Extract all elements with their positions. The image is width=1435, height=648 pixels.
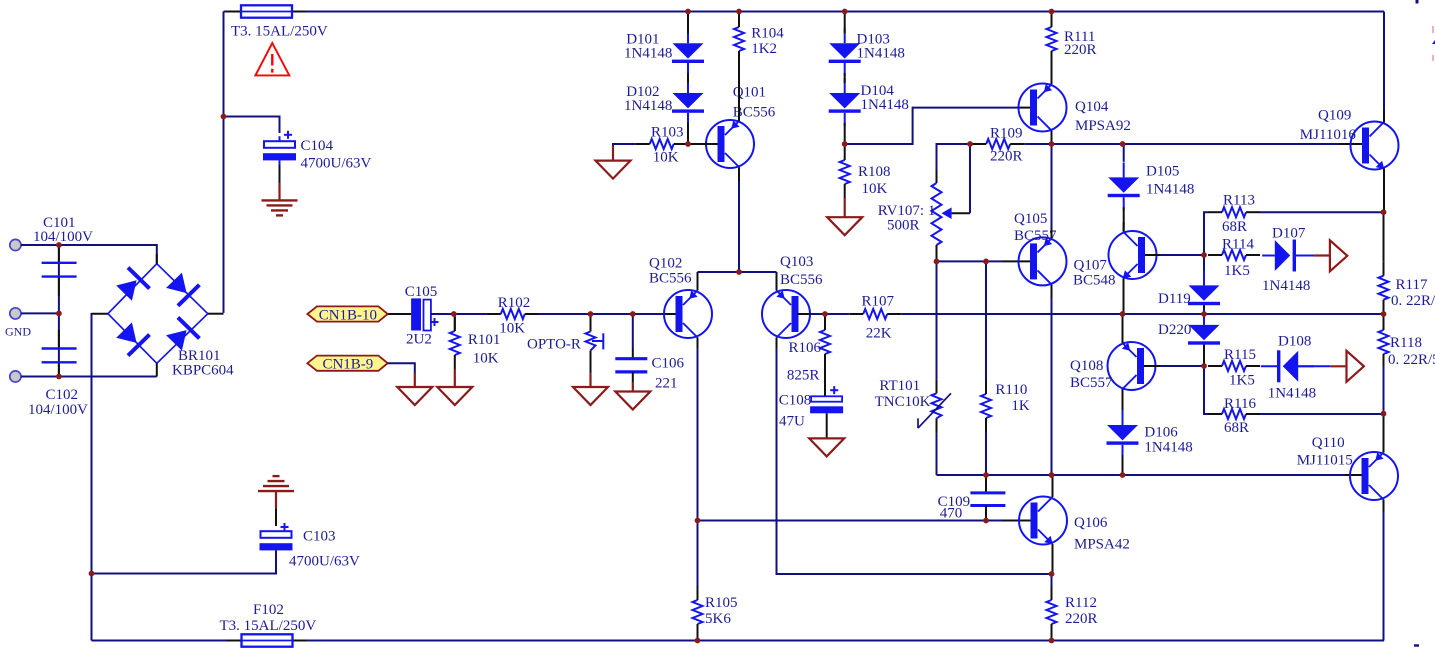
svg-text:1K2: 1K2: [751, 41, 777, 57]
svg-text:10K: 10K: [499, 321, 525, 337]
junction Q106 collector: [1049, 472, 1055, 478]
wire diff pair emitters: [698, 271, 777, 273]
junction R109 left: [967, 141, 973, 147]
terminal AC2: [10, 371, 21, 382]
junction C109/R110: [983, 472, 989, 478]
pin RV107 bottom pin: [936, 245, 938, 261]
svg-text:220R: 220R: [1064, 42, 1097, 58]
pin D106 bottom pin: [1122, 455, 1124, 475]
svg-text:OPTO-R: OPTO-R: [527, 337, 581, 353]
wire D105 top pin: [1123, 144, 1125, 162]
pin Q107 collector pin: [1123, 222, 1125, 232]
transistor Q104: [1019, 84, 1131, 135]
svg-text:C106: C106: [652, 356, 685, 372]
resistor R114: [1208, 236, 1260, 279]
junction C105/R101: [451, 311, 457, 317]
svg-text:R117: R117: [1396, 277, 1428, 293]
wire OPTO-R bottom pin: [590, 351, 592, 374]
diode D102: [624, 78, 704, 126]
resistor R107: [849, 294, 901, 342]
diode D108: [1261, 334, 1316, 402]
svg-text:R115: R115: [1224, 347, 1256, 363]
wire R103 to ground: [613, 144, 636, 146]
wire R101 node to R102: [454, 313, 487, 315]
pin D220 bottom pin: [1203, 345, 1205, 366]
svg-text:BC556: BC556: [780, 272, 823, 288]
svg-text:104/100V: 104/100V: [33, 229, 93, 245]
svg-text:5K6: 5K6: [705, 611, 731, 627]
wire D108 blue lead: [1298, 365, 1330, 367]
ground C106: [615, 392, 650, 410]
resistor R108: [840, 146, 891, 198]
svg-text:CN1B-9: CN1B-9: [322, 357, 373, 373]
transistor Q109: [1300, 108, 1399, 170]
wire Q104c to Q105e: [1051, 144, 1053, 228]
resistor R111: [1047, 13, 1097, 65]
fragment right-edge dash 2: [1432, 55, 1434, 61]
svg-text:BC557: BC557: [1070, 375, 1113, 391]
wire Q104 node to Q109 base: [1052, 143, 1341, 145]
wire CN1B-10 to C105: [388, 313, 411, 315]
junction tail: [736, 269, 742, 275]
junction Q108 base node: [1201, 363, 1207, 369]
ground earth C104: [262, 200, 298, 215]
wire R108 ground stem: [844, 198, 846, 217]
transistor Q105: [1014, 211, 1067, 285]
fragment right-edge dash 1: [1432, 26, 1434, 33]
junction R111 rail: [1049, 9, 1055, 15]
resistor R105: [693, 586, 738, 638]
fragment top-right stub: [1416, 0, 1419, 4]
pin Q106 collector pin: [1052, 475, 1054, 498]
wire OPTO-R ground stem: [589, 373, 591, 387]
junction output/Q107Q108: [1120, 311, 1126, 317]
pin R118 top pin: [1383, 314, 1385, 330]
ground OPTO-R: [573, 387, 608, 405]
pin Q104 collector pin: [1051, 131, 1053, 144]
svg-text:1N4148: 1N4148: [624, 98, 672, 114]
capacitor C104: [263, 131, 372, 172]
svg-text:T3. 15AL/250V: T3. 15AL/250V: [220, 618, 317, 634]
resistor R113: [1208, 193, 1260, 236]
svg-text:R103: R103: [651, 125, 684, 141]
resistor R110: [981, 380, 1030, 432]
svg-text:Q110: Q110: [1312, 435, 1345, 451]
pin Q101 collector pin: [738, 168, 740, 182]
svg-text:Q109: Q109: [1318, 108, 1351, 124]
label F102 ref: [253, 602, 284, 618]
pin D103 top pin: [844, 12, 846, 34]
wire CN1B-9 to ground: [388, 363, 415, 373]
pin Q107 base pin: [1145, 254, 1160, 256]
transistor Q108: [1070, 342, 1156, 391]
wire Q103 base node: [809, 313, 849, 315]
pin D105 bottom pin: [1123, 207, 1125, 231]
fuse F102: [227, 634, 307, 646]
resistor R103: [636, 125, 688, 166]
wire D107 to arrow: [1314, 254, 1330, 256]
pin Q106 emitter pin: [1052, 544, 1054, 574]
junction R113/R117: [1381, 209, 1387, 215]
wire Q101 collector to tail: [738, 181, 740, 272]
diode D104: [829, 78, 909, 126]
svg-text:D108: D108: [1278, 334, 1311, 350]
pin Q102 base pin: [663, 313, 676, 315]
svg-text:GND: GND: [5, 325, 31, 339]
svg-text:Q107: Q107: [1074, 258, 1108, 274]
capacitor C101: [33, 215, 93, 277]
svg-text:D105: D105: [1146, 164, 1179, 180]
label F101 value: [231, 24, 328, 40]
wire OPTO-R top pin: [590, 314, 592, 332]
pin Q105 base pin: [1003, 260, 1031, 262]
diode D220: [1158, 310, 1220, 358]
junction Q104 collector node: [1049, 141, 1055, 147]
ground R108: [827, 217, 862, 235]
pin Q109 collector pin: [1383, 110, 1385, 123]
wire +V top rail: [224, 11, 1385, 13]
wire Q102 collector down: [697, 348, 699, 599]
svg-text:Q104: Q104: [1075, 99, 1109, 115]
pin Q102 collector pin: [697, 338, 699, 349]
svg-text:R114: R114: [1222, 236, 1254, 252]
wire Q105 base net: [937, 260, 1003, 262]
junction R105 bottom: [695, 638, 701, 644]
svg-text:1K: 1K: [1011, 398, 1030, 414]
junction D104/R108: [842, 141, 848, 147]
transistor Q103: [762, 254, 823, 338]
wire Q110 collector to bottom rail: [1383, 512, 1385, 641]
svg-text:1N4148: 1N4148: [857, 46, 905, 62]
ground earth C103: [258, 476, 294, 491]
junction R110 top: [983, 259, 989, 265]
svg-text:R109: R109: [990, 126, 1023, 142]
svg-text:500R: 500R: [887, 218, 920, 234]
svg-text:C104: C104: [301, 138, 334, 154]
wire output bus: [901, 313, 1384, 315]
pin C109 bottom pin: [985, 506, 987, 521]
wire R103 ground stem: [612, 146, 614, 161]
junction D101 rail: [685, 9, 691, 15]
svg-text:220R: 220R: [990, 149, 1023, 165]
wire R101 top pin: [454, 314, 456, 331]
pin Q102 emitter pin: [697, 272, 699, 291]
wire R116 leg: [1204, 366, 1208, 414]
ground R103: [596, 161, 631, 179]
diode D119: [1158, 270, 1220, 318]
wire C106 ground stem: [632, 382, 634, 392]
svg-text:2U2: 2U2: [406, 332, 432, 348]
svg-text:104/100V: 104/100V: [28, 402, 88, 418]
svg-text:C103: C103: [303, 529, 336, 545]
wire Q106e to R112: [1051, 574, 1053, 586]
svg-text:10K: 10K: [653, 150, 679, 166]
junction D106 bottom: [1120, 472, 1126, 478]
potentiometer RV107: [878, 183, 970, 245]
wire R117 top pin: [1383, 212, 1385, 262]
svg-text:68R: 68R: [1222, 219, 1247, 235]
svg-text:D106: D106: [1144, 425, 1178, 441]
junction RV107 bottom: [934, 259, 940, 265]
wire Q106 base net: [698, 520, 1003, 522]
pin Q103 collector pin: [776, 338, 778, 349]
pin Q108 emitter pin: [1122, 314, 1124, 343]
wire R116 to right rail: [1260, 413, 1384, 415]
svg-text:R116: R116: [1224, 396, 1256, 412]
thermistor RT101: [875, 378, 951, 428]
svg-text:BC548: BC548: [1073, 273, 1116, 289]
junction D105 top: [1120, 141, 1126, 147]
svg-text:Q106: Q106: [1074, 515, 1108, 531]
capacitor C109: [938, 493, 1006, 522]
wire R101 ground stem: [454, 369, 456, 387]
junction Q103 base/R106: [822, 311, 828, 317]
pin R106 bottom pin: [824, 354, 826, 396]
svg-text:Q101: Q101: [733, 85, 766, 101]
capacitor C106: [615, 356, 684, 392]
wire RT101 lower: [936, 434, 938, 475]
wire left vertical bridge - to bottom rail: [91, 313, 93, 641]
svg-text:220R: 220R: [1065, 611, 1098, 627]
junction R116/R118: [1381, 411, 1387, 417]
svg-text:MJ11016: MJ11016: [1300, 127, 1357, 143]
pin Q110 emitter pin: [1383, 414, 1385, 453]
wire C106 node to Q102 base: [633, 313, 663, 315]
junction output/R117R118: [1381, 311, 1387, 317]
junction R104 rail: [736, 9, 742, 15]
transistor Q110: [1297, 435, 1398, 500]
terminal GND: [10, 308, 21, 319]
wire D104 node to Q104 base: [845, 108, 1017, 144]
junction C102 bottom: [56, 374, 62, 380]
wire C106 top pin: [632, 314, 634, 349]
photoresistor OPTO-R: [527, 332, 603, 353]
wire C104 branch: [224, 117, 280, 134]
svg-text:Q108: Q108: [1070, 358, 1103, 374]
resistor R118: [1379, 316, 1435, 368]
resistor R109: [972, 126, 1024, 165]
wire bias rail: [937, 474, 1346, 476]
transistor Q107: [1073, 231, 1157, 289]
diode D106: [1107, 410, 1193, 458]
svg-text:MPSA92: MPSA92: [1075, 118, 1131, 134]
resistor R112: [1047, 586, 1098, 638]
pin C109 top pin: [985, 475, 987, 493]
svg-text:1N4148: 1N4148: [1146, 182, 1194, 198]
warning symbol: [255, 43, 289, 75]
pin C101 pins: [58, 247, 60, 375]
wire R110 lower: [985, 432, 987, 475]
wire D108 to arrow: [1330, 365, 1346, 367]
svg-text:1N4148: 1N4148: [624, 46, 672, 62]
pin C106 pin black: [632, 349, 634, 359]
svg-text:C102: C102: [46, 387, 79, 403]
pin D101-D102 link: [687, 73, 689, 83]
wire R109 right to Q104 node: [1024, 143, 1051, 145]
wire D119 top pin: [1203, 255, 1205, 275]
capacitor C105: [405, 284, 439, 348]
svg-text:D220: D220: [1158, 322, 1191, 338]
wire R113 left leg: [1204, 212, 1208, 255]
resistor R117: [1379, 262, 1435, 314]
port CN1B-10: [307, 306, 387, 323]
pin Q105 collector pin: [1051, 285, 1053, 298]
resistor R106: [787, 330, 830, 384]
wire C106 bottom pin: [632, 372, 634, 382]
pin R106 top pin: [824, 314, 826, 330]
wire R110 upper: [985, 261, 987, 380]
pin D119 bottom pin: [1203, 305, 1205, 314]
svg-text:Q103: Q103: [780, 254, 813, 270]
pin Q101 base pin: [688, 143, 718, 145]
pin Q109 base pin: [1340, 143, 1362, 145]
pin Q108 base pin: [1144, 365, 1160, 367]
resistor R101: [450, 317, 501, 369]
fuse F101: [227, 5, 307, 17]
wire R112 to rail: [1051, 636, 1053, 641]
wire R109 left to pot top: [937, 144, 973, 170]
capacitor C102: [28, 349, 88, 419]
svg-text:MJ11015: MJ11015: [1297, 453, 1353, 469]
pin D102 bottom pin: [687, 123, 689, 144]
pin Q101 emitter pin: [738, 65, 740, 121]
wire RT101 upper: [936, 261, 938, 379]
pin RT101 pins: [936, 379, 938, 433]
resistor R104: [734, 13, 784, 65]
svg-text:R106: R106: [789, 340, 822, 356]
port output arrow top: [1330, 240, 1347, 271]
junction C104 branch: [221, 114, 227, 120]
svg-text:BC556: BC556: [649, 271, 692, 287]
svg-text:T3. 15AL/250V: T3. 15AL/250V: [231, 24, 328, 40]
capacitor C103: [260, 523, 361, 570]
wire C103 bottom to left vertical: [92, 550, 277, 573]
wire OPTO node to C106 node: [591, 313, 633, 315]
ground C108: [809, 438, 844, 456]
wire GND to center tap: [21, 312, 59, 314]
wire CN1B-9 ground stem: [414, 373, 416, 387]
junction C106: [630, 311, 636, 317]
junction Q107 base node: [1201, 252, 1207, 258]
svg-text:0. 22R/5W: 0. 22R/5W: [1388, 352, 1435, 368]
svg-text:C108: C108: [779, 393, 812, 409]
svg-text:TNC10K: TNC10K: [875, 394, 931, 410]
junction OPTO-R: [588, 311, 594, 317]
pin Q110 collector pin: [1383, 500, 1385, 513]
wire C101-C102 vertical: [58, 245, 60, 377]
wire C104 to ground: [279, 165, 281, 183]
pin Q106 base pin: [1003, 520, 1031, 522]
wire C104 ground stem: [278, 183, 280, 200]
pin Q108 collector pin: [1122, 389, 1124, 411]
junction GND tap: [56, 311, 62, 317]
pin Q105 emitter pin: [1051, 228, 1053, 238]
svg-text:KBPC604: KBPC604: [172, 363, 234, 379]
wire C105 to R101 node: [431, 313, 454, 315]
resistor R116: [1208, 396, 1260, 436]
wire C108 bottom pin: [826, 413, 828, 438]
svg-text:Q102: Q102: [649, 256, 682, 272]
bridge rectifier BR101: [108, 264, 234, 379]
pin Q104 emitter pin: [1051, 65, 1053, 84]
wire right vertical +rail to Q109 collector: [1383, 12, 1385, 111]
pin RV107 top pin: [936, 170, 938, 183]
transistor Q106: [1019, 497, 1130, 553]
pin D103-D104 link: [844, 73, 846, 83]
wire D220 top pin: [1203, 313, 1205, 316]
wire C103 ground stem: [275, 491, 277, 508]
transistor Q101: [706, 85, 776, 169]
wire -V bottom rail: [92, 640, 1385, 642]
svg-text:MPSA42: MPSA42: [1074, 537, 1130, 553]
svg-text:F102: F102: [253, 602, 284, 618]
pin Q103 base pin: [798, 313, 810, 315]
ground R101: [437, 387, 472, 405]
svg-text:10K: 10K: [473, 351, 499, 367]
diode D107: [1262, 226, 1314, 295]
fragment bottom-right stub: [1414, 644, 1419, 646]
svg-text:D119: D119: [1158, 291, 1191, 307]
svg-text:22K: 22K: [866, 326, 892, 342]
pin Q103 emitter pin: [776, 272, 778, 291]
pin Q104 base pin: [1017, 107, 1030, 109]
svg-text:221: 221: [655, 376, 678, 392]
junction C109 bottom: [983, 518, 989, 524]
fragment right-edge mark: [1432, 40, 1435, 44]
label GND: [5, 325, 31, 339]
svg-text:4700U/63V: 4700U/63V: [301, 156, 372, 172]
wire C103 top pin: [275, 508, 277, 526]
junction D103 rail: [842, 9, 848, 15]
wire Q107 base to node: [1160, 254, 1204, 256]
wire Q103 collector route: [777, 348, 1052, 574]
wire R113 to right rail: [1260, 211, 1384, 213]
pin Q107 emitter pin: [1123, 279, 1125, 315]
wire R105 to rail: [697, 636, 699, 641]
diode D105: [1108, 162, 1195, 210]
wire AC1 to bridge top: [21, 245, 157, 264]
label F102 value: [220, 618, 317, 634]
svg-text:R110: R110: [995, 382, 1027, 398]
wire top-left vertical from bridge + to fuse: [223, 12, 225, 313]
pin BR101 pins: [92, 254, 224, 377]
resistor R115: [1208, 347, 1260, 389]
junction D102/R103/Q101: [685, 141, 691, 147]
capacitor C108: [779, 386, 843, 429]
svg-text:RT101: RT101: [879, 378, 920, 394]
svg-text:47U: 47U: [779, 414, 805, 430]
diode D101: [624, 28, 704, 76]
svg-text:0. 22R/5W: 0. 22R/5W: [1391, 293, 1435, 309]
svg-text:R112: R112: [1065, 595, 1097, 611]
svg-text:R107: R107: [862, 294, 895, 310]
wire R118 to R116 junction: [1383, 366, 1385, 414]
junction R112 bottom: [1049, 638, 1055, 644]
pin D101 top pin: [687, 12, 689, 34]
svg-text:1N4148: 1N4148: [861, 97, 909, 113]
port CN1B-9: [307, 356, 387, 373]
svg-text:D107: D107: [1272, 226, 1306, 242]
svg-text:R105: R105: [705, 595, 738, 611]
pin D104 bottom pin: [844, 123, 846, 144]
svg-text:1N4148: 1N4148: [1268, 386, 1316, 402]
junction C101 top: [56, 242, 62, 248]
wire R102 to OPTO node: [538, 313, 590, 315]
svg-text:10K: 10K: [862, 181, 888, 197]
ground CN1B-9: [397, 387, 432, 405]
resistor R102: [487, 295, 539, 337]
diode D103: [829, 28, 905, 76]
